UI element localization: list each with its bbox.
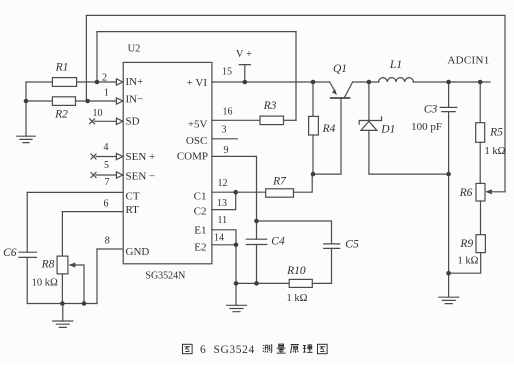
svg-text:8: 8: [105, 235, 110, 246]
svg-text:11: 11: [217, 215, 227, 226]
svg-text:E2: E2: [194, 242, 206, 254]
svg-text:R3: R3: [263, 100, 277, 112]
svg-text:ADCIN1: ADCIN1: [447, 54, 489, 66]
svg-text:IN+: IN+: [126, 76, 144, 88]
svg-text:C6: C6: [3, 247, 17, 259]
svg-text:R1: R1: [55, 62, 69, 74]
svg-text:SG3524: SG3524: [214, 344, 255, 356]
svg-text:4: 4: [104, 142, 109, 153]
svg-text:OSC: OSC: [186, 135, 207, 147]
svg-text:R10: R10: [286, 265, 306, 277]
svg-text:COMP: COMP: [177, 151, 208, 163]
svg-text:D1: D1: [380, 124, 395, 136]
svg-text:1 kΩ: 1 kΩ: [485, 146, 506, 157]
svg-text:R2: R2: [54, 109, 68, 121]
svg-text:SD: SD: [126, 116, 140, 128]
svg-text:R5: R5: [489, 127, 503, 139]
svg-text:SEN −: SEN −: [126, 171, 156, 183]
svg-text:12: 12: [218, 178, 228, 189]
svg-text:+ VI: + VI: [187, 77, 208, 89]
svg-text:+5V: +5V: [188, 118, 208, 130]
svg-text:6: 6: [104, 199, 109, 210]
svg-text:IN−: IN−: [126, 94, 144, 106]
svg-text:5: 5: [104, 160, 109, 171]
svg-text:1: 1: [104, 87, 109, 98]
svg-text:13: 13: [217, 198, 227, 209]
svg-text:CT: CT: [126, 191, 140, 203]
svg-text:R7: R7: [272, 176, 287, 188]
svg-text:C2: C2: [194, 206, 207, 218]
svg-text:2: 2: [102, 72, 107, 83]
svg-text:3: 3: [222, 124, 227, 135]
svg-text:C1: C1: [194, 191, 207, 203]
svg-text:V +: V +: [236, 49, 252, 60]
svg-text:SEN +: SEN +: [126, 151, 156, 163]
svg-text:10: 10: [93, 108, 103, 119]
svg-text:C3: C3: [424, 104, 438, 116]
svg-text:1 kΩ: 1 kΩ: [458, 256, 479, 267]
svg-text:RT: RT: [126, 204, 140, 216]
svg-text:9: 9: [224, 145, 229, 156]
svg-text:16: 16: [223, 106, 233, 117]
svg-text:C5: C5: [345, 239, 359, 251]
svg-text:14: 14: [214, 232, 224, 243]
svg-text:R9: R9: [459, 238, 473, 250]
svg-text:15: 15: [222, 66, 232, 77]
svg-text:6: 6: [200, 344, 206, 356]
svg-text:U2: U2: [128, 44, 141, 55]
svg-text:Q1: Q1: [333, 63, 347, 75]
svg-text:SG3524N: SG3524N: [145, 270, 185, 281]
svg-text:L1: L1: [389, 59, 402, 71]
svg-text:100 pF: 100 pF: [411, 121, 442, 133]
svg-text:R8: R8: [41, 259, 55, 271]
svg-text:GND: GND: [126, 246, 150, 258]
svg-text:1 kΩ: 1 kΩ: [287, 293, 308, 304]
svg-text:R4: R4: [322, 123, 336, 135]
svg-text:C4: C4: [271, 236, 285, 248]
svg-text:10 kΩ: 10 kΩ: [32, 278, 58, 289]
svg-text:E1: E1: [194, 225, 206, 237]
svg-text:7: 7: [105, 177, 110, 188]
svg-text:R6: R6: [459, 187, 473, 199]
